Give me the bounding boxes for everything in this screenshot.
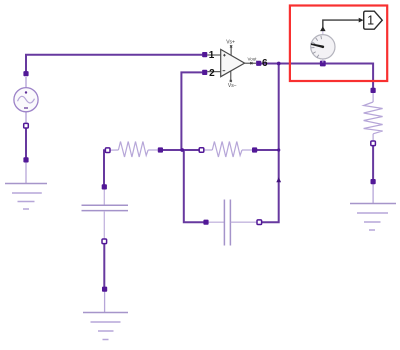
ground G3 (right, below R3) (350, 184, 396, 230)
wire: R2 right to vertical B (255, 149, 279, 151)
wire: output row to right column (259, 64, 373, 91)
wire: input 2 to feedback vertical A down with jog at resistor row (181, 72, 206, 222)
node square: op-amp input 2 (202, 70, 207, 75)
ground G2 (below C1 chain) (83, 291, 128, 340)
node square: output (6) (256, 61, 261, 66)
arrow marker on vertical B (276, 177, 281, 182)
resistor R3 icon (vertical) (364, 93, 383, 141)
node square: G2 top (102, 287, 107, 292)
node square: R3 top (371, 88, 376, 93)
arrowhead right (into outport) (359, 18, 364, 23)
junction dot at vertical B / resistor row (277, 148, 280, 151)
open port: C2 right (257, 220, 262, 225)
node square: G3 top (371, 179, 376, 184)
svg-text:Vs+: Vs+ (226, 40, 235, 46)
svg-text:1: 1 (367, 14, 374, 28)
open port: R2 left (199, 148, 204, 153)
node square: C1 top (102, 184, 107, 189)
resistor R1 icon (108, 142, 158, 158)
red highlight box (290, 6, 387, 82)
node square: R2 right (252, 147, 257, 152)
wire: source bottom to ground node (25, 126, 27, 160)
wire: left branch elbow to C1 node (104, 150, 106, 189)
junction dot at vertical A / resistor row (180, 148, 184, 152)
wire: resistor row R1-R2 (160, 149, 201, 151)
open port: R1 left (105, 148, 110, 153)
svg-text:6: 6 (262, 58, 268, 69)
node square: C2 left (203, 220, 208, 225)
outport block 1 (364, 11, 383, 29)
wire: C1 open port down to ground node (103, 241, 105, 289)
voltage sensor gauge (311, 31, 335, 63)
capacitor C2 icon (vertical plates) (208, 200, 257, 246)
svg-text:Vs−: Vs− (228, 83, 237, 89)
arrowhead up (above gauge) (320, 26, 326, 31)
resistor R2 icon (202, 142, 253, 158)
open port: C1 bottom (102, 239, 107, 244)
junction dot at vertical B / output row (277, 62, 281, 66)
svg-text:2: 2 (209, 68, 215, 79)
wire: source top to op-amp input 1 (26, 55, 202, 74)
open port: source minus (24, 123, 29, 128)
node square: R1 right (158, 147, 163, 152)
AC voltage source V1 icon (14, 77, 38, 124)
signal line sensor to outport (323, 20, 359, 29)
svg-text:Vout: Vout (247, 56, 257, 61)
wire: R3 bottom to ground node (372, 143, 374, 181)
open port: R3 bottom (371, 141, 376, 146)
wire: vertical B output row to capacitor row (259, 64, 278, 223)
node square: source bottom / ground (23, 157, 28, 162)
ground G1 (below source) (5, 162, 47, 209)
svg-text:1: 1 (209, 50, 215, 61)
node square: source top (23, 71, 28, 76)
node square: op-amp input 1 (202, 52, 207, 57)
op-amp U1 (207, 40, 268, 89)
capacitor C1 icon (horizontal plates) (82, 189, 129, 239)
node square: sensor junction (320, 61, 326, 67)
